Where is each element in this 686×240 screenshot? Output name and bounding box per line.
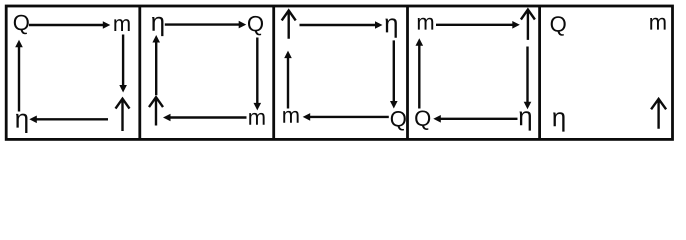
label Q (panel2 top-right) (248, 16, 263, 36)
arrow Q to m (panel1 top) (29, 24, 104, 26)
arrow eta to Q (panel2 top) (165, 23, 240, 25)
label m (panel4 top-left) (418, 18, 433, 30)
arrow m to up-symbol (panel4 top) (436, 24, 514, 26)
up-arrow symbol (panel3 top-left) (282, 11, 296, 39)
separator 4 (538, 6, 541, 139)
arrow m up to up-symbol (panel3 left) (287, 57, 289, 109)
up-arrow symbol (panel1 bottom-right) (116, 99, 130, 131)
label eta (panel5 bottom-left) (553, 112, 564, 131)
label eta (panel1 bottom-left) (16, 114, 27, 133)
up-arrow symbol (panel5 bottom-right) (651, 99, 666, 129)
separator 2 (272, 6, 275, 139)
separator 3 (406, 6, 409, 139)
label Q (panel4 bottom-left) (415, 110, 430, 130)
arrow eta up to Q (panel1 left) (18, 46, 20, 111)
arrow Q up to m (panel4 left) (418, 45, 420, 109)
arrow m to up-symbol (panel2 bottom) (169, 116, 246, 118)
label Q (panel5 top-left) (551, 16, 566, 36)
label m (panel3 bottom-left) (283, 111, 298, 123)
arrow m down to up-symbol (panel1 right) (122, 35, 124, 87)
label eta (panel4 bottom-right) (520, 111, 531, 130)
label eta (panel2 top-left) (152, 17, 163, 36)
up-arrow symbol (panel4 top-right) (521, 10, 535, 40)
label m (panel5 top-right) (650, 18, 665, 30)
label m (panel2 bottom-right) (249, 113, 264, 125)
up-arrow symbol (panel2 bottom-left) (149, 97, 163, 125)
outer frame (6, 6, 672, 139)
separator 1 (138, 6, 141, 139)
arrow up-symbol to eta (panel3 top) (300, 24, 377, 26)
label m (panel1 top-right) (114, 19, 129, 31)
arrow up-symbol to eta (panel2 left) (155, 41, 157, 95)
arrow up-symbol down to eta (panel4 right) (526, 47, 528, 103)
arrow Q down to m (panel2 right) (256, 38, 258, 105)
arrow Q to m (panel3 bottom) (309, 116, 389, 118)
label Q (panel3 bottom-right) (391, 111, 406, 131)
arrow eta to Q (panel4 bottom) (440, 118, 518, 120)
label Q (panel1 top-left) (14, 15, 29, 35)
label eta (panel3 top-right) (385, 18, 396, 37)
arrow up-symbol to eta (panel1 bottom) (36, 118, 108, 120)
arrow eta down to Q (panel3 right) (393, 40, 395, 102)
